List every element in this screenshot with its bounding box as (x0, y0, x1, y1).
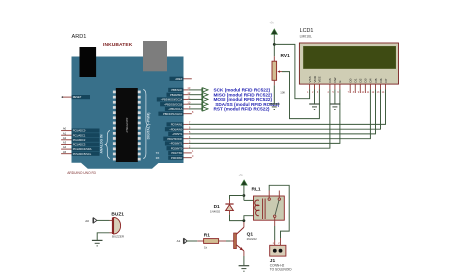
pin PD2/INT0 (167, 145, 191, 151)
LCD pin 1 VSS (307, 76, 312, 94)
LCD LCD1 body (299, 43, 398, 84)
wire junction to D1 cathode (230, 196, 244, 200)
svg-text:PD4/T0/XCK: PD4/T0/XCK (167, 137, 182, 141)
svg-text:RS: RS (328, 78, 332, 82)
resistor R1 (204, 239, 219, 244)
LCD pin 2 VDD (312, 75, 317, 94)
svg-text:PD2/INT0: PD2/INT0 (171, 146, 183, 150)
relay NO pin stub (268, 191, 270, 198)
wire +5v down to coil top (243, 185, 245, 200)
wire +5v to LCD VSS (274, 44, 309, 98)
pin RESET (62, 95, 90, 99)
pin PB5/SCK (168, 86, 191, 92)
svg-text:A2: A2 (63, 136, 67, 140)
pin PD1/TXD (156, 149, 194, 155)
ground (buzzer) (92, 240, 103, 246)
LCD pin 4 RS (327, 78, 332, 94)
svg-text:PC2/ADC2: PC2/ADC2 (73, 138, 86, 142)
node junction top (243, 194, 246, 197)
connector J1 CONN-H2 (270, 245, 286, 256)
wire Q1 emitter to ground (243, 251, 245, 256)
wire Arduino pin to LCD D5 (189, 90, 376, 134)
wire pin to SCK arrow (189, 89, 202, 91)
LCD pin 14 D7 (382, 78, 388, 94)
wire Arduino pin to LCD D6 (189, 90, 381, 130)
svg-text:LM016L: LM016L (300, 34, 312, 38)
pin PD4/T0/XCK (163, 135, 191, 141)
wire LCD RW to ground (334, 90, 336, 104)
bus arrow RST (202, 107, 208, 112)
svg-text:VSS: VSS (308, 76, 312, 82)
wire pin to MOSI arrow (189, 98, 202, 100)
pin PB0/ICP1/CLKO (158, 110, 194, 116)
svg-text:D7: D7 (384, 78, 388, 82)
relay NC pin stub (278, 191, 280, 198)
svg-text:BUZ1: BUZ1 (111, 211, 124, 217)
pin ~PD3/INT1 (165, 140, 191, 146)
buzzer BUZ1 (112, 217, 121, 234)
bus arrow MOSI (202, 97, 208, 102)
wire pin to MISO arrow (189, 94, 202, 96)
svg-text:~PD6/AIN0: ~PD6/AIN0 (169, 127, 183, 131)
wire coil bottom (244, 216, 258, 221)
DC power jack (80, 47, 97, 77)
pin PC3/ADC3 (61, 141, 99, 147)
svg-text:~PD5/T1: ~PD5/T1 (172, 132, 183, 136)
svg-text:A1: A1 (177, 239, 181, 243)
svg-text:~PB2/SS/OC1B: ~PB2/SS/OC1B (164, 102, 183, 106)
power +5v symbol (relay) (239, 173, 248, 185)
pin PC4/ADC4/SDA (61, 145, 99, 151)
wire coil top (244, 199, 258, 201)
ATmega328 chip (116, 88, 138, 162)
bus arrow SCK (202, 88, 208, 93)
wire relay NO to J1 pin2 (269, 185, 289, 238)
svg-text:~PB3/MOSI/OC2A: ~PB3/MOSI/OC2A (161, 98, 183, 102)
brace right digital (143, 90, 148, 159)
svg-text:A0: A0 (85, 219, 89, 223)
pin ~PB3/MOSI/OC2A (157, 96, 191, 102)
pin PD7/AIN1 (167, 121, 191, 127)
diode D1 1N4002 (225, 200, 233, 215)
svg-text:RL1: RL1 (252, 187, 261, 193)
LCD pin 11 D4 (367, 78, 373, 94)
svg-text:PC0/ADC0: PC0/ADC0 (73, 129, 86, 133)
wire RV1 bottom to ground (273, 85, 275, 103)
svg-text:PB0/ICP1/CLKO: PB0/ICP1/CLKO (163, 112, 182, 116)
node junction bottom (243, 219, 246, 222)
svg-text:ARDUINO UNO R3: ARDUINO UNO R3 (67, 171, 96, 175)
svg-text:VEE: VEE (318, 76, 322, 82)
LCD pin 12 D5 (372, 78, 378, 94)
pin PB4/MISO (167, 91, 191, 97)
wire Arduino pin to LCD E (189, 90, 340, 144)
svg-text:LCD1: LCD1 (300, 28, 314, 34)
pin ~PB2/SS/OC1B (160, 101, 191, 107)
svg-text:PB5/SCK: PB5/SCK (171, 88, 182, 92)
relay RL1 (254, 196, 285, 220)
wire Arduino pin to LCD D4 (189, 90, 371, 139)
bus arrow SDA/SS (202, 102, 208, 107)
svg-text:A1: A1 (63, 131, 67, 135)
wire relay common to J1 pin1 (274, 217, 276, 226)
wire A0 to buzzer (97, 219, 110, 221)
svg-text:D2: D2 (359, 78, 363, 82)
potentiometer RV1 (272, 56, 282, 85)
pin PC2/ADC2 (61, 136, 99, 142)
svg-text:A3: A3 (63, 141, 67, 145)
wire +5v to RV1 top (273, 34, 275, 56)
svg-text:E: E (338, 80, 342, 82)
svg-text:D0: D0 (349, 78, 353, 82)
svg-text:TX: TX (156, 151, 160, 155)
USB connector (143, 41, 167, 71)
wire RV1 wiper to LCD VEE (282, 72, 319, 119)
svg-text:D5: D5 (374, 78, 378, 82)
brace left analog (106, 131, 111, 159)
bus arrow MISO (202, 92, 208, 97)
LCD pin 3 VEE (317, 76, 322, 94)
pin PC0/ADC0 (61, 127, 99, 133)
power +5v symbol (RV1) (270, 21, 278, 35)
node +5v junction (273, 43, 276, 46)
chip pin squares (113, 91, 141, 161)
wire LCD VDD to ground (314, 90, 316, 104)
wire A1 to R1 (187, 240, 197, 242)
wire Q1 collector (243, 221, 245, 228)
ground (LCD RW) (330, 104, 341, 110)
transistor Q1 2N2222 (234, 227, 244, 251)
svg-text:10K: 10K (280, 90, 285, 94)
pin ~PD5/T1 (168, 130, 191, 136)
svg-text:ATMEGA328P: ATMEGA328P (126, 117, 129, 132)
svg-text:AREF: AREF (175, 77, 182, 81)
svg-text:A4: A4 (63, 145, 67, 149)
svg-text:A0: A0 (63, 127, 67, 131)
svg-text:~PD3/INT1: ~PD3/INT1 (169, 142, 182, 146)
svg-text:DIGITAL (~PWM): DIGITAL (~PWM) (147, 113, 151, 140)
svg-text:1N4002: 1N4002 (210, 210, 221, 214)
wire D1 anode to junction bottom (230, 215, 244, 221)
svg-text:+5v: +5v (239, 173, 244, 177)
pin ~PD6/AIN0 (165, 126, 191, 132)
svg-text:PC3/ADC3: PC3/ADC3 (73, 143, 86, 147)
svg-text:PD1/TXD: PD1/TXD (171, 151, 182, 155)
pin PD0/RXD (156, 154, 194, 160)
Arduino board ARD1 body (72, 57, 184, 169)
svg-text:PD7/AIN1: PD7/AIN1 (171, 123, 183, 127)
svg-text:VDD: VDD (313, 75, 317, 82)
wire Arduino pin to LCD D7 (189, 90, 386, 125)
ground (Q1 emitter) (239, 266, 250, 272)
LCD pin 5 RW (332, 77, 337, 93)
svg-text:PB4/MISO: PB4/MISO (170, 93, 182, 97)
svg-text:+5v: +5v (270, 21, 275, 25)
pin PC5/ADC5/SCL (61, 150, 99, 156)
svg-text:TO SOLENOID: TO SOLENOID (270, 268, 292, 272)
svg-text:BUZZER: BUZZER (112, 234, 125, 238)
svg-text:D6: D6 (379, 78, 383, 82)
svg-text:PD0/RXD: PD0/RXD (171, 156, 182, 160)
wire buzzer to ground (110, 232, 113, 234)
svg-text:RX: RX (156, 156, 160, 160)
svg-text:ARD1: ARD1 (72, 34, 87, 40)
LCD screen (304, 46, 396, 68)
LCD pin 7 D0 (348, 78, 353, 94)
svg-text:A5: A5 (63, 150, 67, 154)
pin ~PB1/OC1A (165, 105, 191, 111)
svg-text:RESET: RESET (73, 95, 82, 99)
svg-text:PC4/ADC4/SDA: PC4/ADC4/SDA (73, 147, 92, 151)
svg-text:2N2222: 2N2222 (247, 237, 258, 241)
terminal A1 (177, 238, 188, 244)
LCD pin 6 E (337, 80, 342, 93)
LCD pin 13 D6 (377, 78, 383, 94)
pin PC1/ADC1 (61, 131, 99, 137)
svg-text:~PB1/OC1A: ~PB1/OC1A (168, 107, 182, 111)
pin AREF (170, 77, 192, 81)
svg-text:PC5/ADC5/SCL: PC5/ADC5/SCL (73, 152, 92, 156)
svg-text:INKUBATEK: INKUBATEK (103, 42, 133, 48)
wire Arduino pin to LCD RS (189, 90, 330, 149)
LCD pin 8 D1 (353, 78, 358, 94)
svg-text:PC1/ADC1: PC1/ADC1 (73, 133, 86, 137)
ground (RV1) (269, 104, 280, 110)
svg-text:D3: D3 (364, 78, 368, 82)
LCD pin 9 D2 (358, 78, 363, 94)
svg-text:ANALOG IN: ANALOG IN (100, 134, 104, 154)
wire R1 to Q1 base (219, 240, 226, 242)
svg-text:RW: RW (333, 77, 337, 82)
svg-text:R1: R1 (204, 232, 210, 238)
svg-text:RV1: RV1 (281, 53, 291, 59)
svg-text:D4: D4 (369, 78, 373, 82)
svg-text:D1: D1 (354, 78, 358, 82)
LCD pin 10 D3 (361, 78, 367, 94)
wire pin to RST arrow (189, 108, 202, 110)
ground (LCD VDD) (309, 104, 320, 110)
svg-text:1k: 1k (204, 245, 208, 249)
svg-text:RST (modul RFID RC522): RST (modul RFID RC522) (214, 107, 270, 112)
terminal A0 (85, 218, 97, 224)
wire pin to SDA/SS arrow (189, 103, 202, 105)
